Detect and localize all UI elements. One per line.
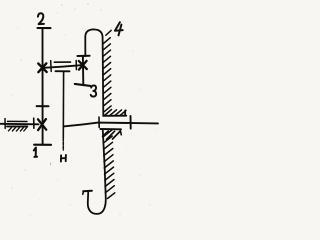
gear 3 diametral line — [82, 56, 84, 85]
planet shaft shoulder tick left — [50, 61, 53, 72]
gear 3 hub cross (keyed to planet shaft) — [79, 61, 87, 70]
bearing tick left end — [4, 119, 6, 129]
mesh point gears 1-2 rim cap — [37, 105, 49, 107]
mesh point gears 3-4 rim cap — [77, 55, 89, 57]
planet shaft shoulder tick right — [75, 61, 77, 70]
ring gear 4 rim and shell with fixed wall — [85, 29, 126, 115]
gear 1 bottom rim cap — [34, 144, 51, 146]
label 1 (gear 1) — [34, 148, 37, 157]
label 4 (ring gear 4) — [115, 22, 123, 35]
label 2 (gear 2) — [38, 13, 44, 24]
planet shaft (upper axis) — [43, 65, 82, 68]
gear 3 bottom rim cap — [75, 84, 91, 86]
carrier arm H — [62, 71, 64, 138]
lower bar end flare — [120, 131, 121, 135]
ring gear 4 bottom rim cap — [83, 190, 92, 193]
carrier arm lower faded part — [62, 138, 64, 150]
shaft shoulder tick at wall right — [130, 116, 132, 129]
bearing tick right — [33, 118, 35, 128]
shaft shoulder tick at wall left — [98, 117, 100, 127]
ground hatching under bearing — [8, 128, 26, 131]
gear block 1-2 diametral line — [42, 28, 44, 144]
bottom rim cap left serif — [82, 191, 85, 194]
carrier bearing top bar — [54, 61, 70, 63]
gear 2 top rim cap — [38, 27, 51, 29]
gear 1 hub cross (keyed to input shaft) — [38, 119, 46, 130]
wall corner hatching above foot — [105, 110, 126, 116]
fixed bearing upper bar — [8, 120, 28, 122]
leader line to label 4 — [106, 30, 111, 35]
paper background — [0, 0, 165, 225]
hatching under lower bearing bar — [103, 131, 120, 140]
lower bearing bar of wall — [100, 128, 121, 130]
label 3 (gear 3) — [91, 85, 96, 96]
wall foot up tick — [124, 110, 126, 115]
wall hatching upper — [103, 38, 111, 112]
label H (carrier) — [61, 155, 66, 162]
wall hatching lower — [103, 130, 115, 199]
carrier output shaft (right, main axis) — [63, 123, 158, 127]
stray quote mark below H — [49, 163, 51, 166]
lower wall line down to ring bottom hook — [88, 131, 106, 214]
scan speckle noise — [7, 3, 155, 215]
fixed bearing lower bar — [7, 125, 27, 127]
input shaft 1 (horizontal, left, main axis) — [0, 123, 39, 126]
gear 2 hub cross (keyed to planet shaft) — [38, 63, 47, 72]
carrier bearing bottom bar — [56, 70, 70, 72]
